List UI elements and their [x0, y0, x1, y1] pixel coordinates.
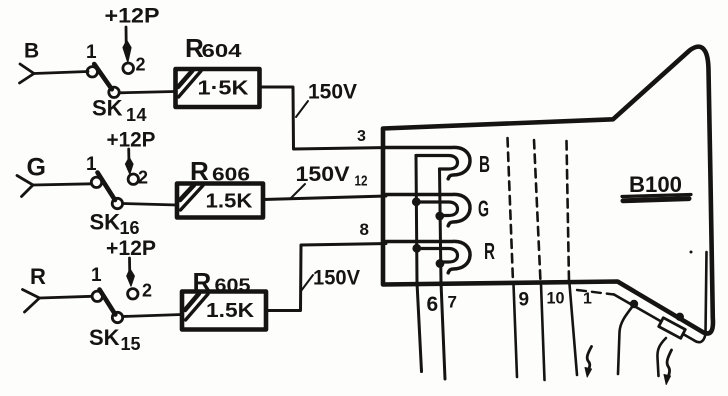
svg-text:1·5K: 1·5K: [198, 78, 250, 100]
resistor R606: [177, 184, 263, 218]
CRT picture tube B100 envelope: [383, 47, 713, 334]
pin 2 label SK14: [136, 55, 146, 75]
wire R605 to CRT pin 8: [266, 244, 386, 311]
pin 1 label SK15: [91, 265, 102, 286]
grid electrode pin 10: [534, 140, 545, 380]
svg-text:B100: B100: [629, 172, 682, 197]
svg-text:1: 1: [86, 42, 97, 63]
junction aquadag tap: [630, 300, 638, 308]
pin 9 label: [519, 290, 530, 311]
svg-text:SK: SK: [90, 210, 121, 235]
pin 10 label: [547, 289, 565, 308]
label B100: [622, 172, 691, 201]
switch SK16 contact 2: [128, 174, 138, 184]
junction heater G left: [412, 197, 421, 206]
pin 1 label: [583, 291, 592, 308]
wire R604 to CRT pin 3: [260, 87, 386, 149]
svg-text:150V: 150V: [313, 267, 360, 290]
switch SK15 contact 2: [128, 289, 138, 299]
svg-text:1.5K: 1.5K: [206, 191, 254, 213]
pin 2 label SK15: [142, 281, 152, 301]
svg-text:G: G: [478, 196, 489, 222]
pin 8 label: [360, 220, 369, 239]
svg-text:R: R: [30, 264, 46, 289]
switch SK15: [92, 290, 123, 323]
svg-text:14: 14: [126, 105, 147, 125]
junction anode outer: [676, 313, 684, 321]
switch SK16: [91, 173, 122, 209]
spark gap arrow 1: [585, 347, 592, 378]
gun label G: [478, 196, 489, 222]
svg-text:R: R: [484, 238, 495, 264]
label SK15: [89, 325, 141, 354]
label SK16: [90, 210, 140, 239]
pin 12 label: [355, 173, 368, 190]
svg-text:+12P: +12P: [107, 129, 156, 152]
svg-text:3: 3: [357, 128, 366, 145]
svg-text:SK: SK: [89, 325, 120, 350]
anode cap: [659, 318, 686, 339]
pin 6 label: [427, 293, 439, 316]
wire SK15 to R605: [123, 315, 182, 317]
electron gun cathode R: [386, 241, 470, 272]
label SK14: [92, 96, 147, 126]
svg-text:15: 15: [121, 334, 141, 354]
spark gap arrow 2: [664, 350, 672, 385]
svg-text:9: 9: [519, 290, 530, 311]
svg-text:1.5K: 1.5K: [206, 300, 255, 322]
input terminal G: [17, 176, 33, 197]
node B: [24, 40, 39, 63]
gun label R: [484, 238, 495, 264]
gun label B: [479, 151, 490, 177]
svg-text:150V: 150V: [308, 81, 357, 104]
svg-text:605: 605: [215, 276, 251, 296]
pin 7 label: [448, 293, 457, 312]
svg-text:1: 1: [91, 265, 102, 286]
net label 150V (G): [291, 163, 350, 198]
pin 3 label: [357, 128, 366, 145]
svg-text:604: 604: [202, 41, 242, 61]
heater R: [417, 249, 458, 263]
spark gap lead from coating: [618, 305, 634, 375]
grid electrode pin 9: [508, 138, 518, 377]
svg-text:+12P: +12P: [105, 5, 160, 28]
svg-text:7: 7: [448, 293, 457, 312]
svg-text:8: 8: [360, 220, 369, 239]
electron gun cathode B: [384, 147, 470, 178]
input terminal R: [23, 290, 40, 313]
svg-text:+12P: +12P: [106, 237, 156, 260]
svg-text:R: R: [190, 156, 209, 186]
net label 150V (B): [296, 81, 357, 118]
wire input G to SK16: [33, 184, 92, 185]
junction heater R left: [412, 244, 421, 253]
wire SK14 to R604: [120, 92, 175, 93]
wire input R to SK15: [40, 296, 93, 298]
internal coating line from pin 1: [577, 252, 707, 342]
pin 1 label SK16: [86, 154, 97, 175]
supply +12P (B): [105, 5, 160, 63]
input terminal B: [20, 64, 35, 83]
supply +12P (G): [107, 129, 156, 175]
svg-text:606: 606: [212, 165, 250, 185]
junction heater G right: [435, 212, 444, 221]
svg-text:16: 16: [120, 218, 140, 238]
heater B: [416, 156, 458, 170]
heater bus wire to pin 7: [440, 169, 446, 379]
resistor R605: [182, 292, 266, 330]
label R606: [190, 156, 250, 186]
anode lead: [657, 338, 666, 376]
electron gun cathode G: [384, 194, 470, 225]
svg-text:SK: SK: [92, 96, 123, 121]
junction heater R right: [436, 259, 445, 268]
wire input B to SK14: [34, 72, 88, 74]
svg-text:1: 1: [86, 154, 97, 175]
pin 1 label SK14: [86, 42, 97, 63]
svg-text:6: 6: [427, 293, 439, 316]
net label 150V (R): [301, 267, 360, 292]
speck: [690, 251, 693, 254]
supply +12P (R): [106, 237, 156, 286]
svg-text:2: 2: [136, 55, 146, 75]
svg-text:150V: 150V: [296, 163, 350, 186]
resistor R604: [176, 69, 260, 107]
label R605: [193, 267, 251, 297]
svg-text:2: 2: [142, 281, 152, 301]
node R: [30, 264, 46, 289]
svg-text:R: R: [193, 267, 212, 297]
svg-text:1: 1: [583, 291, 592, 308]
svg-text:B: B: [24, 40, 39, 63]
node G: [27, 154, 46, 182]
grid electrode pin 1: [567, 141, 578, 375]
svg-text:10: 10: [547, 289, 565, 308]
heater G: [416, 202, 458, 216]
switch SK14: [87, 64, 119, 98]
pin 2 label SK16: [138, 168, 148, 188]
svg-text:B: B: [479, 151, 490, 177]
svg-text:G: G: [27, 154, 46, 182]
svg-text:12: 12: [355, 173, 368, 190]
wire SK16 to R606: [123, 204, 177, 206]
label R604: [185, 33, 242, 63]
heater bus wire to pin 6: [416, 156, 422, 372]
switch SK14 contact 2: [123, 63, 134, 74]
wire R606 to CRT pin 12: [264, 196, 387, 200]
